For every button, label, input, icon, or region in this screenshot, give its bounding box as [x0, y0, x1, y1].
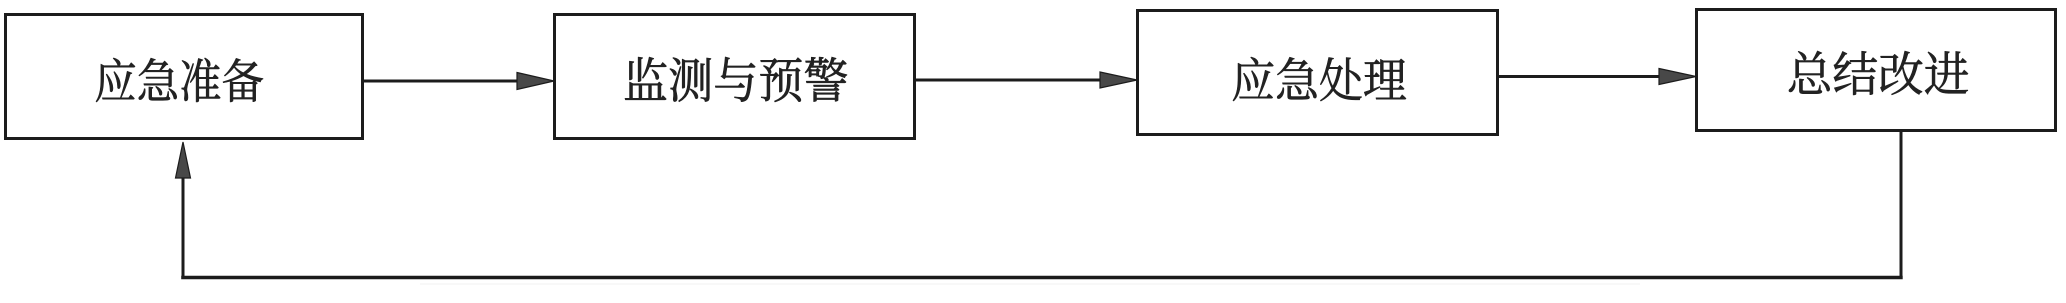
label: 应急准备	[96, 58, 263, 102]
process box: 应急准备 (Emergency preparation)	[6, 15, 363, 139]
feedback wire: bottom horizontal	[181, 276, 1903, 279]
label: 监测与预警	[625, 57, 847, 102]
feedback wire: down from 总结改进	[1900, 131, 1903, 276]
label: 应急处理	[1233, 57, 1406, 101]
process box: 应急处理 (Emergency handling)	[1138, 11, 1498, 135]
process box: 监测与预警 (Monitoring and early warning)	[555, 15, 915, 139]
label: 总结改进	[1789, 51, 1968, 95]
process box: 总结改进 (Summary and improvement)	[1697, 10, 2056, 131]
feedback wire: up into 应急准备	[182, 174, 185, 279]
arrowhead: up into 应急准备	[176, 142, 191, 178]
scan ghost line under bottom wire	[420, 283, 1640, 285]
arrow: 监测与预警 → 应急处理	[916, 72, 1137, 88]
arrow: 应急准备 → 监测与预警	[364, 73, 554, 90]
arrow: 应急处理 → 总结改进	[1499, 69, 1696, 85]
